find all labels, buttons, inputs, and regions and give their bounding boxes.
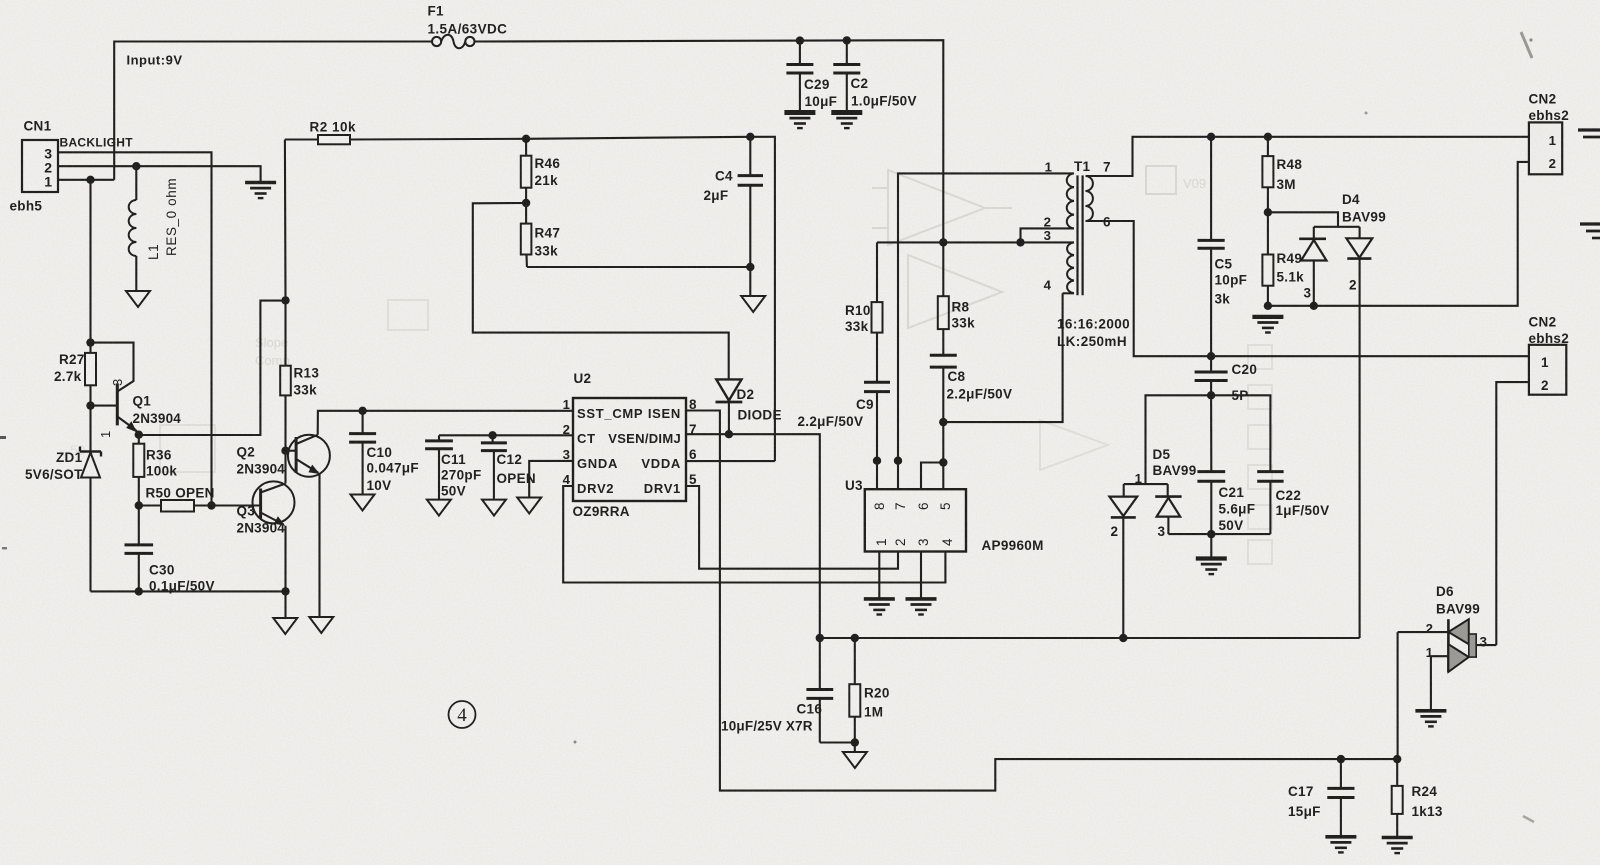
scan speck top right (1365, 38, 1533, 114)
ground U3 pin3 (906, 599, 937, 615)
zener ZD1 (80, 447, 101, 592)
label R47 value (535, 244, 559, 259)
wire D6 pin1 to ground (1431, 656, 1449, 711)
paper noise overlay (0, 0, 1, 1)
label C22 value (1276, 503, 1330, 518)
transistor Q3 (253, 481, 295, 591)
label R46 (535, 156, 561, 171)
U2 pin number 1 (563, 397, 570, 412)
U3 pin number 7 (893, 502, 908, 510)
wire U2 pin4 DRV2 to U3 pin4 (563, 486, 945, 583)
ground Q2 (309, 617, 333, 633)
IC U2 OZ9RRA box (573, 398, 686, 501)
label C8 value (947, 387, 1013, 402)
junction dot R46 top (522, 135, 530, 143)
transformer T1 core (1078, 175, 1083, 295)
label C5 (1215, 257, 1233, 272)
wire Q2 collector to U2 pin1 rail (318, 411, 573, 435)
U3 pin number 8 (872, 502, 887, 510)
junction dot C10 top (358, 407, 366, 415)
wire U2 pin2 CT line (439, 434, 573, 436)
ground C12 (482, 500, 506, 516)
wire 9V rail from fuse to R8 column (475, 40, 944, 242)
partial ground symbol at right edge (lower) (1580, 224, 1600, 238)
label R46 value (535, 173, 559, 188)
transistor Q2 (286, 435, 330, 617)
fuse F1 (432, 35, 475, 49)
label Q1 (133, 394, 152, 409)
wire U2 pin5 DRV1 to U3 pin2 (686, 486, 898, 569)
ground C17 (1325, 837, 1356, 853)
wire T1 pin4 return (943, 293, 1062, 422)
label BACKLIGHT net (60, 136, 134, 150)
wire CN1 pin3 BACKLIGHT to R50 column (58, 152, 212, 505)
junction dot C20 top (1207, 352, 1215, 360)
label D5 BAV99 (1153, 463, 1197, 478)
junction dot R36 top (135, 431, 143, 439)
wire ground bus bottom-left (91, 590, 286, 592)
wire C8 node down to U3 pins 5/6 (942, 422, 944, 462)
junction dot C21 bottom (1207, 530, 1215, 538)
wire D6 pin3 to CN2 (1476, 644, 1496, 646)
resistor R48 (1262, 137, 1273, 213)
resistor R27 (85, 353, 96, 385)
label C4 (715, 169, 733, 184)
label F1 (428, 4, 445, 19)
resistor R47 (521, 203, 532, 267)
label Input:9V (127, 53, 183, 68)
scan smudge bottom right (1523, 816, 1534, 822)
junction dot R48/R49/D4 (1264, 208, 1272, 216)
label D2 (737, 387, 755, 402)
label ebh5 (10, 199, 43, 214)
capacitor C16 (806, 638, 854, 743)
label C12 (497, 452, 523, 467)
label C5 3k (1215, 292, 1231, 307)
label C21 value (1219, 502, 1256, 517)
wire R13 to Q3 collector (284, 451, 286, 484)
U2 pin name VSEN/DIMJ (608, 431, 681, 446)
scan speck left edge (0, 436, 7, 549)
ground CN1 pin2 (245, 183, 276, 199)
label R24 value (1412, 804, 1443, 819)
wire Q3 emitter to ground (284, 591, 286, 618)
wire T1 pin4 lead (1063, 292, 1074, 294)
junction dot pin1/R27 branch (86, 176, 94, 184)
resistor R13 (280, 300, 291, 450)
label Q2 (237, 445, 256, 460)
transformer T1 primary winding upper (pins 1-2) (1067, 173, 1074, 228)
inductor L1 (129, 166, 137, 290)
label C30 value (149, 579, 215, 594)
capacitor C2 (833, 40, 860, 112)
U2 pin name ISEN (648, 406, 681, 421)
wire C22 branch (1211, 395, 1270, 471)
U2 pin name GNDA (577, 456, 618, 471)
label R49 value (1277, 270, 1305, 285)
label C29 value (805, 94, 838, 109)
U2 pin name CT (577, 431, 596, 446)
label C11 voltage (441, 484, 466, 499)
wire T1 pin7 to HV rail (1086, 137, 1529, 176)
wire CN1 pin2 to ground (58, 166, 261, 182)
wire CN1 pin1 to 9V riser (58, 179, 114, 181)
label C16 (797, 702, 823, 717)
label ebhs2 lower (1529, 331, 1570, 346)
junction dot Q1 base (86, 401, 94, 409)
ground C21 (1196, 559, 1227, 575)
U3 pin number 3 (916, 538, 931, 546)
label R2 10k (310, 120, 357, 135)
junction dot C30 bottom (135, 587, 143, 595)
IC U3 AP9960M box (865, 489, 966, 551)
sheet number 4 (circled) (449, 701, 476, 728)
junction dot C20 bottom / D5 node (1207, 391, 1215, 399)
junction dot U3 pin8 node (873, 457, 881, 465)
label C10 voltage (367, 478, 392, 493)
capacitor C9 (864, 382, 890, 461)
junction dot R49 bottom (1264, 302, 1272, 310)
label D5 (1153, 447, 1171, 462)
junction dot R48 top (1264, 133, 1272, 141)
label R47 (535, 226, 561, 241)
label R13 value (294, 383, 318, 398)
transformer T1 primary winding lower (pins 3-4) (1067, 242, 1074, 293)
label R13 (294, 366, 320, 381)
wire R27 to Q1 base node (89, 385, 91, 451)
resistor R46 (521, 139, 532, 203)
label AP9960M (982, 538, 1044, 553)
T1 pin 7 number (1103, 160, 1111, 175)
transformer T1 secondary winding (pins 7-6) (1086, 176, 1093, 221)
scan speck bottom (574, 741, 577, 744)
diode D4 pin3 element (1299, 227, 1326, 306)
U3 pin1 to ground (878, 552, 880, 599)
label C9 (856, 397, 874, 412)
label R27 (59, 352, 85, 367)
label R10 (845, 303, 871, 318)
label CN2 upper (1529, 92, 1557, 107)
resistor R49 (1262, 212, 1273, 305)
capacitor C4 (738, 137, 763, 267)
D4 pin 2 number (1349, 278, 1357, 293)
T1 pin 2 number (1044, 215, 1051, 230)
junction dot D5 pin2 bottom (1119, 634, 1127, 642)
resistor R24 (1392, 759, 1403, 837)
label ZD1 (56, 450, 83, 465)
junction dot Q2 base (281, 447, 289, 455)
wire C4 to ground (749, 267, 751, 295)
junction dot C16 top (816, 634, 824, 642)
label Q3 (237, 504, 256, 519)
junction dot C2 tap (843, 36, 851, 44)
label 1.5A/63VDC (428, 22, 508, 37)
resistor R36 (133, 435, 144, 506)
U2 pin number 3 (563, 447, 570, 462)
connector CN2 lower (1529, 345, 1566, 395)
junction dot R50/Q3 base (207, 501, 215, 509)
resistor R20 (849, 638, 860, 743)
T1 pin 4 number (1044, 278, 1052, 293)
U3 pin stub 8 (876, 461, 878, 490)
wire D5 common bar (1124, 483, 1168, 485)
D6 pin 2 number (1426, 621, 1433, 636)
label T1 (1074, 159, 1091, 174)
diode D6 BAV99 (1398, 619, 1477, 759)
label D2 DIODE (738, 408, 782, 423)
U2 pin name SST_CMP (577, 406, 643, 421)
junction dot L1 tap (132, 162, 140, 170)
ground R24 (1382, 838, 1413, 854)
CN2 lower pin 1 (1541, 355, 1549, 370)
label C20 value (1232, 388, 1249, 403)
resistor R50 (139, 500, 212, 512)
label C16 value (721, 719, 813, 734)
junction dot U3 pin5/6 node (939, 458, 947, 466)
label C20 (1232, 362, 1258, 377)
U3 pin number 2 (893, 538, 908, 546)
U3 pin stub 6 (921, 463, 943, 490)
junction dot C17 top (1337, 755, 1345, 763)
ground L1 (126, 291, 150, 307)
wire U2 pin8 ISEN sense return (686, 411, 1397, 791)
ground Q3 (273, 618, 297, 634)
wire R2 corner down to R13 (284, 140, 287, 301)
junction dot R20 top (851, 634, 859, 642)
junction dot C4 top (746, 133, 754, 141)
U3 pin number 6 (916, 502, 931, 510)
T1 pin 6 number (1103, 215, 1111, 230)
wire Q1 emitter node to R13 column (136, 301, 286, 435)
label ebhs2 upper (1529, 108, 1570, 123)
junction dot C12 top (488, 431, 496, 439)
ground C2 (831, 113, 862, 129)
label R27 value (54, 369, 82, 384)
label ZD1 value (25, 467, 83, 482)
junction dot C29 tap (796, 36, 804, 44)
label D6 BAV99 (1436, 602, 1480, 617)
wire D5 top feed (1146, 395, 1212, 484)
U2 pin number 8 (689, 397, 697, 412)
label C22 (1276, 488, 1302, 503)
ground U2 GNDA (517, 498, 541, 514)
D6 pin 3 number (1480, 635, 1488, 650)
ground C4 (741, 296, 765, 312)
U3 pin stub 7 (897, 461, 899, 490)
partial ground symbol at right edge (top) (1578, 130, 1600, 137)
label C11 value (441, 468, 482, 483)
capacitor C12 (481, 435, 507, 499)
label T1 LK (1057, 334, 1127, 349)
wire U2 pin7 VSEN/DIMJ line (686, 434, 820, 638)
label D4 (1342, 192, 1360, 207)
U3 pin number 1 (874, 538, 889, 546)
wire left column upper (89, 180, 91, 353)
junction dot D4 pin3 bottom (1310, 302, 1318, 310)
label C2 (851, 76, 869, 91)
T1 pin 1 number (1045, 160, 1052, 175)
label RES_0 ohm (164, 178, 179, 256)
wire T1 pin3 from centre tap (1021, 241, 1075, 243)
wire 9V input rail from CN1 riser to fuse F1 (114, 42, 432, 180)
U3 pin number 5 (938, 502, 953, 510)
junction dot R13 top node (281, 296, 289, 304)
label U2 (574, 371, 592, 386)
CN2 upper pin 2 (1549, 156, 1556, 171)
diode D4 pin2 element (1346, 227, 1372, 638)
wire U2 pin6 VDDA (686, 460, 775, 462)
CN1 pin 1 number (44, 174, 52, 190)
label R36 value (146, 464, 177, 479)
label R49 (1277, 251, 1303, 266)
capacitor C20 (1195, 356, 1228, 395)
U3 pin3 to ground (920, 552, 922, 599)
junction dot T1 centre tap (1016, 238, 1024, 246)
U3 pin number 4 (940, 538, 955, 546)
resistor R2 (285, 135, 526, 144)
label C4 value (704, 188, 729, 203)
capacitor C29 (786, 41, 813, 112)
D4 pin 3 number (1304, 286, 1312, 301)
junction dot U3 pin7 node (894, 457, 902, 465)
label C10 (367, 445, 393, 460)
capacitor C30 (125, 506, 154, 592)
wire U2 pin3 GNDA to ground (529, 461, 573, 498)
T1 pin 3 number (1044, 228, 1051, 243)
transistor Q1 (91, 343, 139, 435)
junction dot R36/R50/C30 node (135, 501, 143, 509)
label Q3 type (237, 521, 286, 536)
wire DIMJ bus (820, 637, 1360, 639)
ground R20 (open triangle) (843, 752, 867, 768)
junction dot Q3 emitter bottom (281, 587, 289, 595)
Q1 pin 3 label (110, 378, 125, 386)
CN1 pin 3 number (44, 146, 52, 162)
diode D5 pin3 element (1155, 484, 1211, 534)
label C2 value (851, 94, 917, 109)
wire C21 bottom to ground (1210, 534, 1212, 558)
label CN2 lower (1529, 315, 1557, 330)
U2 pin number 7 (689, 422, 697, 437)
CN2 lower pin 2 (1541, 378, 1549, 393)
label T1 ratio (1057, 317, 1130, 332)
ground C11 (427, 500, 451, 516)
label R36 (146, 448, 172, 463)
ground C10 (351, 495, 375, 511)
junction dot R8 top (939, 238, 947, 246)
connector CN2 upper (1529, 122, 1562, 174)
label R50 OPEN (146, 486, 215, 501)
ground D6 pin1 (1415, 711, 1446, 727)
U2 pin name DRV1 (644, 481, 681, 496)
label C5 value (1215, 273, 1248, 288)
U2 pin number 6 (689, 447, 697, 462)
wire T1 pin1 to U3 pin7 (898, 173, 1074, 460)
wire R8 node to T1 centre tap (877, 241, 1021, 243)
label C17 value (1288, 804, 1321, 819)
label R20 (864, 686, 890, 701)
label C17 (1288, 784, 1314, 799)
junction dot C8 bottom / T1 pin4 node (939, 418, 947, 426)
junction dot C4 bottom (746, 263, 754, 271)
label Q1 type (133, 411, 182, 426)
U3 pin stub 5 (942, 463, 944, 490)
label R20 value (864, 705, 883, 720)
label C8 (948, 369, 966, 384)
label R48 value (1277, 177, 1296, 192)
ground C29 (784, 113, 815, 129)
capacitor C17 (1327, 759, 1354, 837)
wire CN2 lower pin2 to D6 pin3 (1496, 382, 1529, 645)
label R48 (1277, 157, 1303, 172)
label Q2 type (237, 462, 286, 477)
D5 pin 2 number (1111, 524, 1119, 539)
wire R46 node to D2 anode (473, 203, 729, 379)
junction dot C5 top (1207, 133, 1215, 141)
label D6 (1436, 584, 1454, 599)
junction dot R46/R47 (522, 199, 530, 207)
U2 pin number 5 (689, 472, 697, 487)
U2 pin number 4 (563, 472, 571, 487)
D5 pin 3 number (1158, 524, 1166, 539)
label R10 value (845, 319, 869, 334)
label C11 (441, 452, 466, 467)
D6 pin 1 number (1426, 645, 1433, 660)
wire D4 common anode feed (1268, 212, 1338, 227)
capacitor C11 (425, 435, 453, 499)
label C21 voltage (1219, 518, 1244, 533)
U2 pin name VDDA (641, 456, 681, 471)
label C12 OPEN (497, 471, 536, 486)
CN1 pin 2 number (44, 160, 52, 176)
U2 pin name DRV2 (577, 481, 614, 496)
resistor R10 (872, 242, 883, 382)
wire R20 bottom to ground (854, 743, 856, 753)
scan smudge top right (1521, 32, 1532, 58)
wire R2 output to VDDA corner (526, 137, 775, 461)
wire R50 to Q3 base (212, 504, 261, 506)
capacitor C21 (1197, 395, 1225, 534)
label C21 (1219, 485, 1245, 500)
capacitor C8 (930, 355, 957, 422)
label R8 (952, 300, 970, 315)
diode D5 pin2 element (1109, 484, 1137, 638)
diode D2 (716, 379, 743, 434)
Q1 pin 1 label (98, 430, 113, 438)
wire R49/D4 node to CN2 upper pin2 (1268, 162, 1529, 306)
ground U3 pin1 (864, 599, 895, 615)
junction dot D2 cathode on VSEN line (725, 430, 733, 438)
junction dot R24 top (1393, 755, 1401, 763)
label C10 value (367, 461, 419, 476)
label D4 BAV99 (1342, 210, 1386, 225)
wire T1 pin2 to centre tap (1021, 228, 1075, 242)
label OZ9RRA (573, 504, 630, 519)
junction dot R20 bottom (851, 738, 859, 746)
wire D4 anode tee (1314, 226, 1360, 228)
label C29 (804, 77, 830, 92)
label R8 value (952, 316, 976, 331)
ground R49 (1252, 317, 1283, 333)
wire R47 bottom to C4 bottom (527, 266, 750, 268)
connector CN1 (22, 140, 58, 192)
capacitor C10 (349, 411, 376, 495)
D5 pin 1 number (1135, 471, 1142, 486)
wire T1 pin6 to CN2 lower (1086, 221, 1529, 356)
capacitor C5 (1198, 137, 1225, 356)
resistor R8 (938, 242, 949, 355)
label R24 (1412, 784, 1438, 799)
